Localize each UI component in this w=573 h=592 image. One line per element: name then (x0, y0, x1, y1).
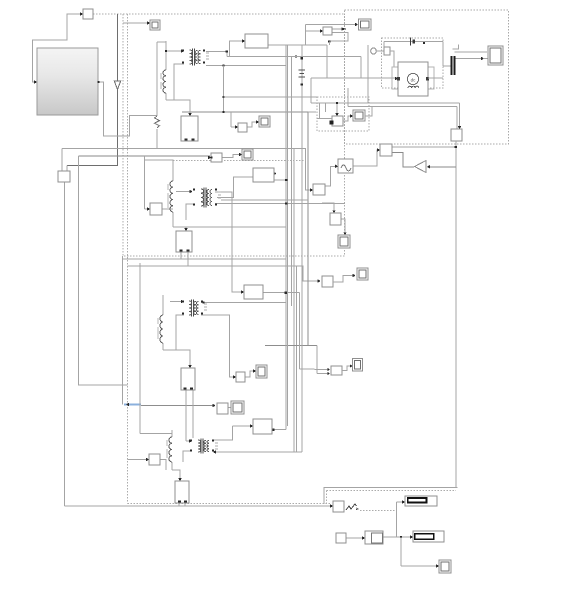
svg-text:dc: dc (411, 77, 417, 82)
